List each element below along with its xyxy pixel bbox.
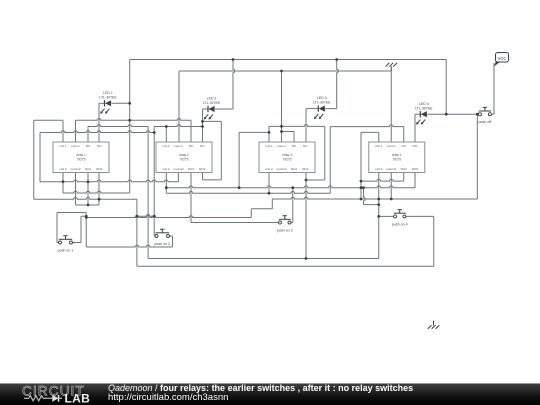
- svg-text:LED 3: LED 3: [317, 96, 327, 100]
- svg-text:NC: NC: [86, 144, 91, 148]
- svg-text:NC: NC: [292, 144, 297, 148]
- svg-text:NO: NO: [413, 144, 418, 148]
- svg-text:comm: comm: [277, 144, 286, 148]
- svg-text:79275: 79275: [283, 157, 292, 161]
- svg-text:coil 2: coil 2: [265, 167, 273, 171]
- svg-text:NO2: NO2: [302, 167, 309, 171]
- svg-text:LED 4: LED 4: [419, 102, 429, 106]
- svg-text:NO: NO: [200, 144, 205, 148]
- svg-text:coil 1: coil 1: [375, 144, 383, 148]
- svg-text:LTL-307EE: LTL-307EE: [203, 101, 221, 105]
- svg-text:LTL-307EE: LTL-307EE: [313, 101, 331, 105]
- svg-text:VCC: VCC: [498, 56, 507, 61]
- svg-text:relay 3: relay 3: [282, 153, 292, 157]
- svg-text:push on 1: push on 1: [58, 249, 74, 253]
- svg-text:push off: push off: [479, 120, 492, 124]
- svg-text:NC: NC: [402, 144, 407, 148]
- svg-text:79275: 79275: [392, 157, 401, 161]
- svg-text:LAB: LAB: [65, 392, 91, 405]
- svg-text:NC2: NC2: [401, 167, 407, 171]
- svg-text:push on 3: push on 3: [277, 229, 293, 233]
- svg-text:push on 4: push on 4: [392, 222, 408, 226]
- svg-text:NC2: NC2: [291, 167, 297, 171]
- svg-text:79275: 79275: [180, 157, 189, 161]
- svg-text:coil 2: coil 2: [375, 167, 383, 171]
- svg-text:comm2: comm2: [70, 167, 80, 171]
- svg-text:coil 2: coil 2: [59, 167, 67, 171]
- svg-text:comm: comm: [387, 144, 396, 148]
- svg-text:LED 1: LED 1: [103, 91, 113, 95]
- svg-text:relay 2: relay 2: [179, 153, 189, 157]
- svg-text:LTL-307EE: LTL-307EE: [99, 95, 117, 99]
- svg-text:relay 1: relay 1: [76, 153, 86, 157]
- svg-text:NO2: NO2: [412, 167, 419, 171]
- svg-text:coil 1: coil 1: [265, 144, 273, 148]
- svg-text:NC2: NC2: [85, 167, 91, 171]
- svg-text:coil 2: coil 2: [162, 167, 170, 171]
- svg-text:comm: comm: [174, 144, 183, 148]
- svg-text:coil 1: coil 1: [162, 144, 170, 148]
- svg-text:NC: NC: [189, 144, 194, 148]
- svg-text:comm2: comm2: [386, 167, 396, 171]
- svg-text:LTL-307EE: LTL-307EE: [415, 106, 433, 110]
- svg-text:NO2: NO2: [96, 167, 103, 171]
- svg-text:LED 2: LED 2: [207, 97, 217, 101]
- svg-text:NO2: NO2: [199, 167, 206, 171]
- svg-text:coil 1: coil 1: [59, 144, 67, 148]
- svg-text:NO: NO: [97, 144, 102, 148]
- svg-text:comm2: comm2: [276, 167, 286, 171]
- svg-text:push on 2: push on 2: [154, 242, 170, 246]
- svg-text:79275: 79275: [77, 157, 86, 161]
- svg-text:relay 4: relay 4: [392, 153, 402, 157]
- svg-text:comm: comm: [71, 144, 80, 148]
- svg-text:NO: NO: [303, 144, 308, 148]
- svg-text:comm2: comm2: [173, 167, 183, 171]
- svg-text:NC2: NC2: [188, 167, 194, 171]
